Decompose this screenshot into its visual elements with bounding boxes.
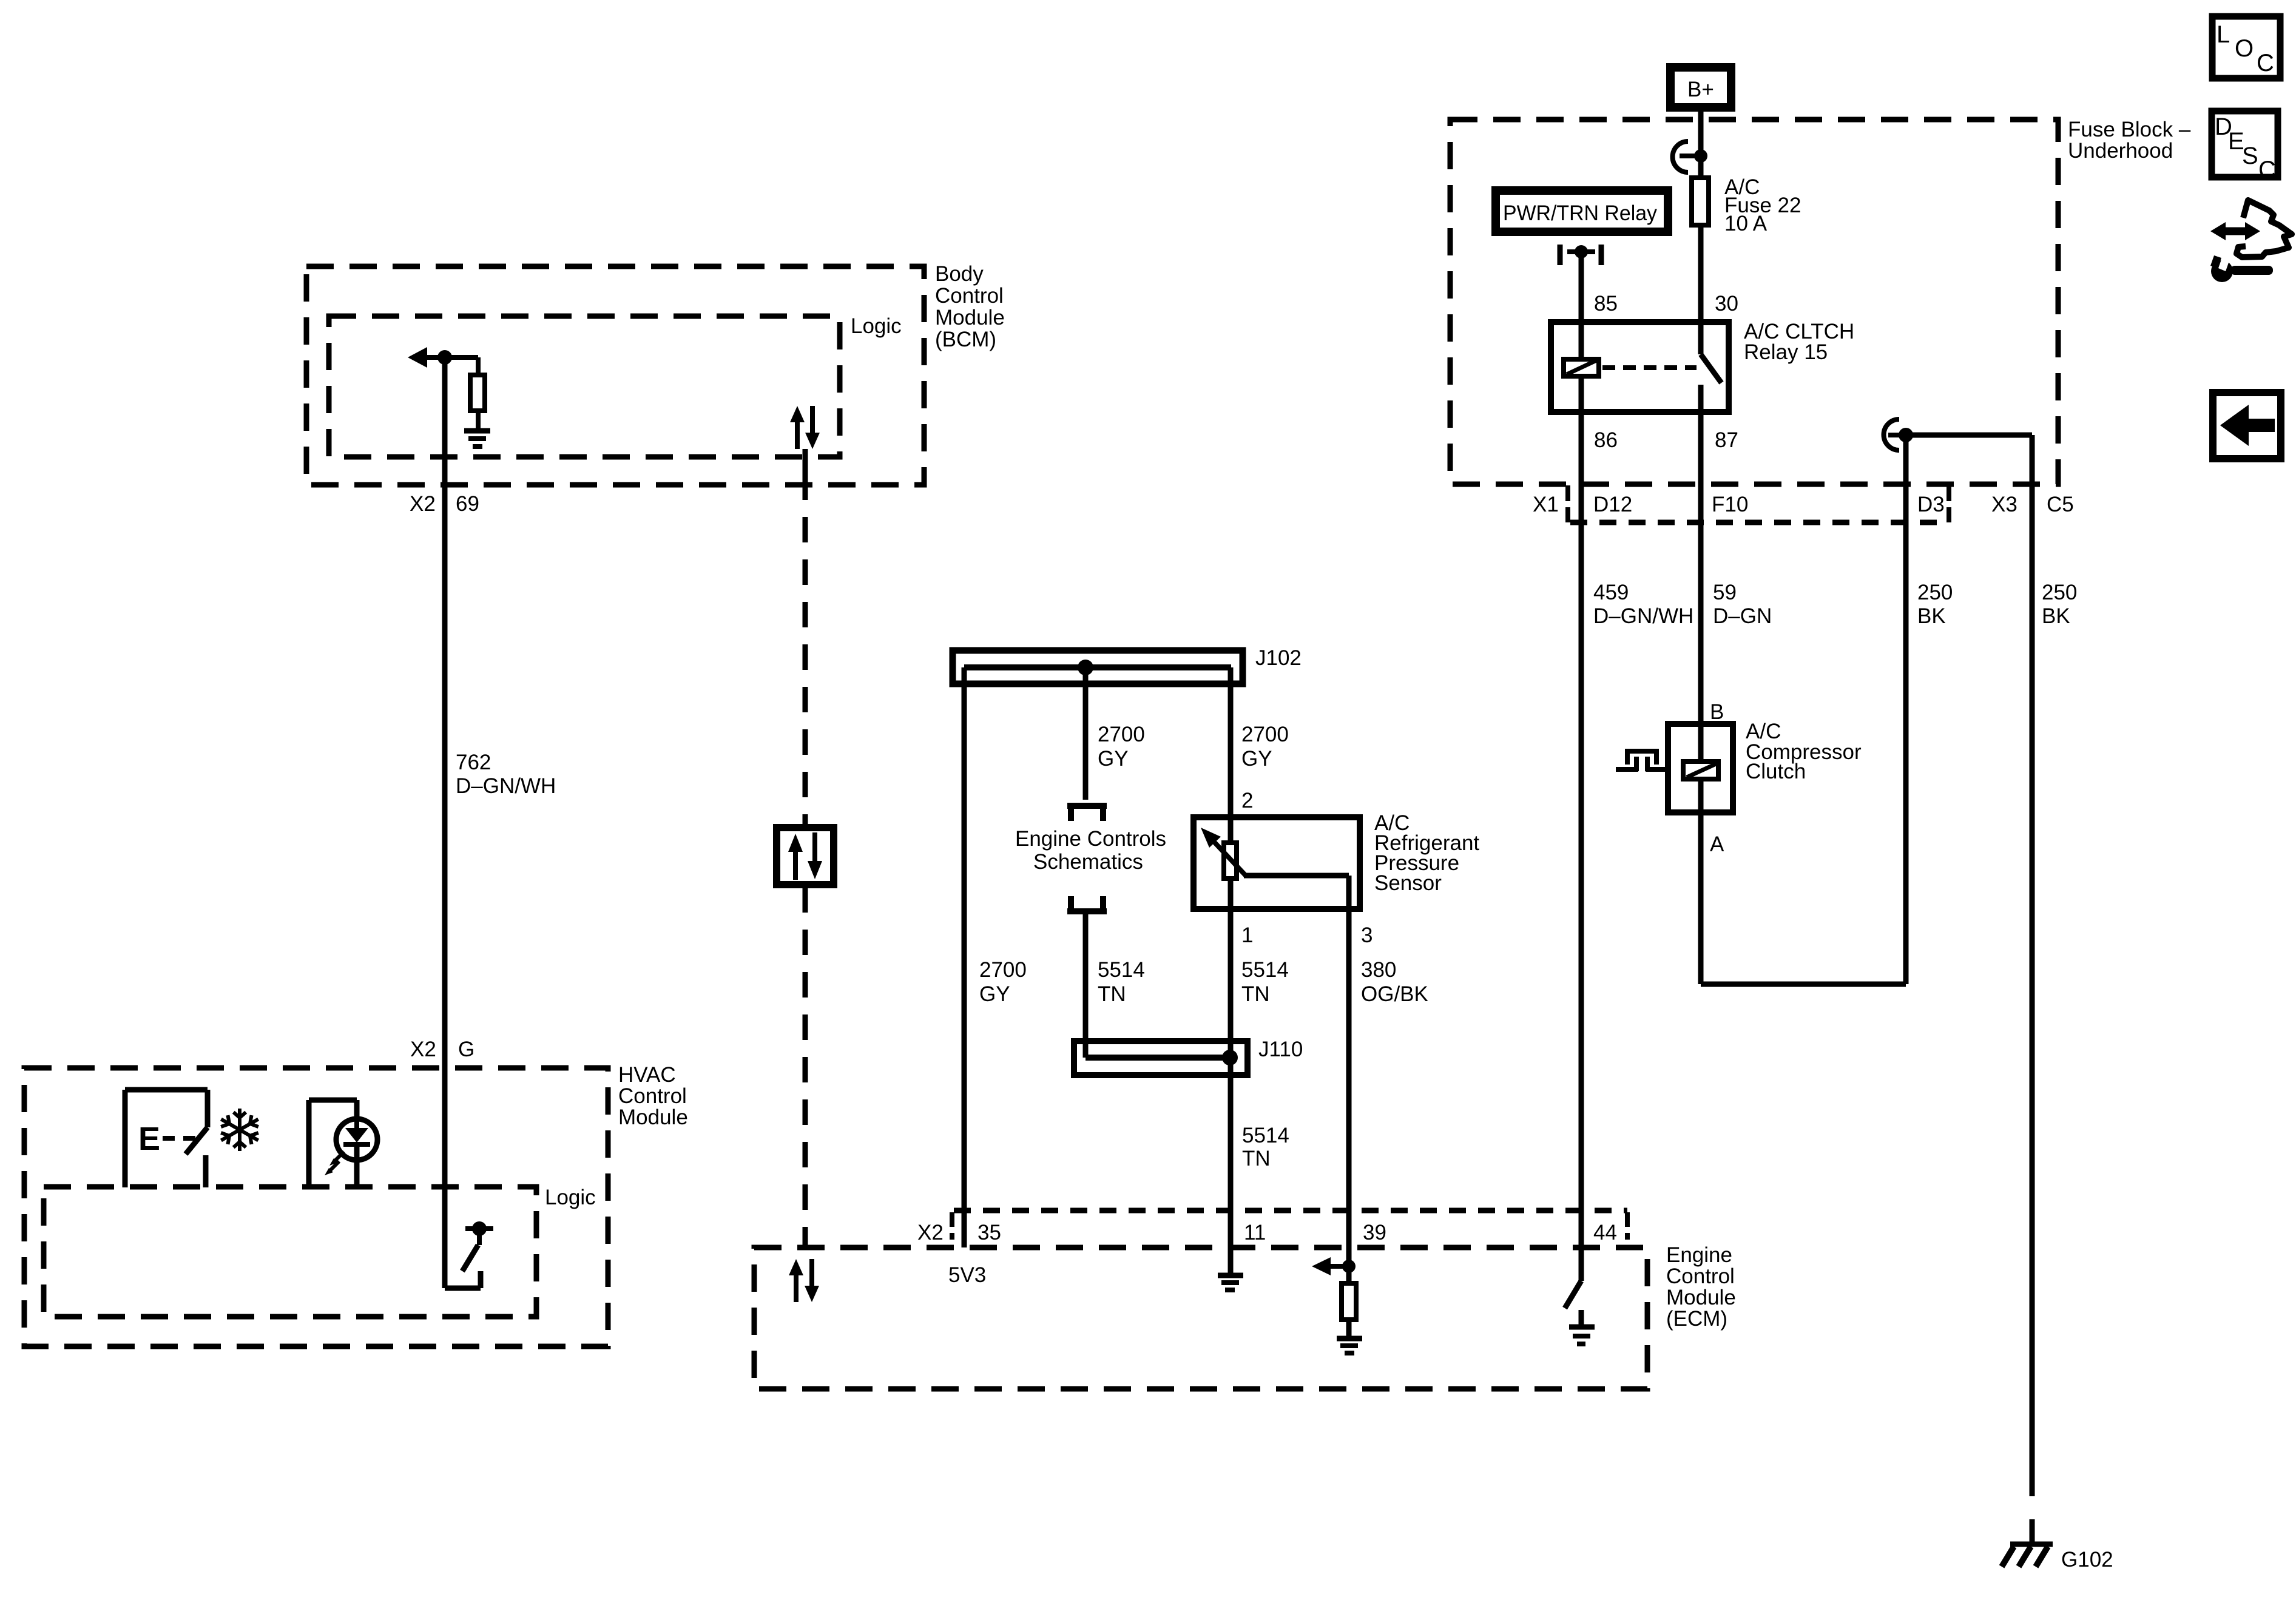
svg-text:F10: F10 — [1712, 493, 1748, 516]
svg-text:250: 250 — [2042, 581, 2077, 604]
svg-text:BK: BK — [1917, 604, 1946, 628]
wire sensor 1 down through J110 to ECM 11 — [1228, 879, 1234, 1247]
svg-text:35: 35 — [977, 1221, 1001, 1244]
engine control module dashed box — [754, 1247, 1647, 1389]
wire label 380 OG/BK — [1361, 958, 1428, 1006]
svg-text:GY: GY — [1241, 747, 1272, 771]
label Engine Control Module (ECM) — [1666, 1243, 1736, 1331]
svg-text:69: 69 — [456, 492, 479, 516]
ground ECM pin 44 — [1569, 1327, 1595, 1344]
svg-text:A: A — [1710, 832, 1724, 856]
svg-text:2: 2 — [1241, 789, 1253, 812]
A/C request switch with E actuator — [125, 1090, 208, 1187]
sensor potentiometer — [1201, 828, 1246, 879]
svg-text:(BCM): (BCM) — [935, 328, 996, 351]
wire label 762 D-GN/WH — [456, 751, 556, 798]
wire clutch A to D3 drop — [1701, 982, 1906, 987]
svg-text:B: B — [1710, 700, 1724, 724]
svg-text:O: O — [2235, 35, 2254, 62]
svg-text:59: 59 — [1713, 581, 1737, 604]
wire label 5514 TN below J110 — [1242, 1124, 1289, 1170]
svg-text:S: S — [2242, 143, 2258, 169]
connector row separator X1 — [1565, 485, 1570, 522]
ground ECM pin 11 — [1218, 1247, 1243, 1290]
node BCM output junction — [437, 350, 452, 365]
svg-text:2700: 2700 — [1241, 723, 1289, 746]
serial data arrows in ECM — [789, 1259, 819, 1302]
svg-text:B+: B+ — [1687, 78, 1714, 101]
svg-text:86: 86 — [1594, 428, 1618, 452]
svg-text:BK: BK — [2042, 604, 2070, 628]
clutch thermal limiter zigzag — [1616, 749, 1668, 771]
label Body Control Module (BCM) — [935, 262, 1005, 351]
svg-text:Logic: Logic — [545, 1186, 596, 1209]
diagnostic wrench icon — [2210, 200, 2292, 282]
svg-text:459: 459 — [1593, 581, 1629, 604]
DESC legend box — [2212, 111, 2278, 183]
ECM connector row dotted line — [954, 1208, 1627, 1214]
sensor wiper to pin 3 — [1244, 876, 1349, 909]
wire relay coil 85 feed — [1579, 252, 1584, 359]
svg-text:TN: TN — [1098, 982, 1126, 1006]
fuse F22 A/C 10A — [1692, 175, 1801, 235]
svg-text:Schematics: Schematics — [1033, 850, 1143, 874]
svg-text:Clutch: Clutch — [1746, 760, 1806, 783]
off-page bracket upper (to Engine Controls Schematics) — [1067, 806, 1107, 821]
serial data wire dashed upper — [803, 474, 808, 825]
HVAC control module dashed box — [24, 1068, 608, 1346]
ground BCM internal — [464, 431, 490, 447]
svg-text:X3: X3 — [1991, 493, 2017, 516]
A/C Compressor Clutch box — [1668, 720, 1862, 812]
off-page bracket lower — [1067, 896, 1107, 911]
svg-text:250: 250 — [1917, 581, 1953, 604]
PWR/TRN Relay box — [1496, 191, 1668, 232]
label HVAC Control Module — [618, 1063, 688, 1129]
svg-text:10 A: 10 A — [1724, 212, 1768, 235]
wire label 2700 GY right — [1241, 723, 1289, 771]
fuse block underhood dashed box — [1450, 120, 2058, 484]
svg-text:L: L — [2217, 21, 2230, 48]
connector hook at B+ feed — [1673, 141, 1707, 172]
A/C refrigerant pressure sensor box — [1194, 811, 1479, 909]
ground ECM pin 39 — [1337, 1320, 1362, 1353]
ECM pin 39 reference arrow — [1312, 1257, 1356, 1275]
svg-text:D–GN/WH: D–GN/WH — [1593, 604, 1693, 628]
ground G102 — [2002, 1544, 2053, 1567]
body control module dashed box — [306, 266, 924, 485]
B+ battery feed box — [1670, 67, 1731, 107]
wire dashed to G102 — [2030, 1468, 2035, 1544]
svg-text:Sensor: Sensor — [1374, 871, 1442, 895]
svg-text:E: E — [138, 1121, 160, 1157]
wire 380 OG/BK sensor 3 to ECM 39 — [1346, 909, 1352, 1266]
wire 250 BK D3 drop — [1903, 435, 1909, 984]
clutch coil — [1683, 761, 1718, 779]
LOC legend box — [2212, 16, 2280, 78]
svg-text:Engine: Engine — [1666, 1243, 1732, 1267]
svg-text:J110: J110 — [1258, 1038, 1303, 1061]
connector row labels — [1533, 493, 2074, 516]
wire hook to X3 drop — [1906, 433, 2032, 438]
svg-text:5514: 5514 — [1241, 958, 1289, 982]
svg-text:30: 30 — [1715, 292, 1738, 316]
resistor ECM pull-down — [1342, 1266, 1356, 1320]
A/C CLTCH Relay 15 box — [1551, 320, 1854, 412]
connector label X2 69 at BCM — [410, 492, 479, 516]
svg-text:1: 1 — [1241, 923, 1253, 947]
svg-text:HVAC: HVAC — [618, 1063, 676, 1087]
wire fuse to relay 30 — [1698, 225, 1704, 354]
svg-text:Module: Module — [618, 1106, 688, 1129]
svg-text:X1: X1 — [1533, 493, 1559, 516]
svg-text:2700: 2700 — [979, 958, 1027, 982]
svg-text:Engine Controls: Engine Controls — [1015, 827, 1166, 851]
splice pack J110 — [1074, 1038, 1303, 1075]
serial data symbol box — [777, 828, 834, 885]
svg-text:85: 85 — [1594, 292, 1618, 316]
connector bracket below PWR/TRN relay — [1560, 245, 1601, 265]
ECM row separator 44 — [1625, 1212, 1630, 1240]
relay switch blade — [1701, 354, 1721, 383]
svg-text:D12: D12 — [1593, 493, 1632, 516]
svg-text:Module: Module — [1666, 1286, 1736, 1309]
serial data arrows in BCM logic — [790, 406, 820, 449]
svg-text:TN: TN — [1242, 1147, 1271, 1170]
svg-text:D–GN: D–GN — [1713, 604, 1772, 628]
connector label X2 G at HVAC — [410, 1038, 474, 1061]
wire label 5514 TN left — [1098, 958, 1145, 1006]
svg-text:D3: D3 — [1917, 493, 1945, 516]
svg-text:5V3: 5V3 — [948, 1263, 986, 1287]
svg-text:Module: Module — [935, 306, 1005, 329]
svg-text:Relay 15: Relay 15 — [1744, 340, 1828, 364]
svg-text:G: G — [458, 1038, 474, 1061]
wire 2700 GY middle J102 to bracket — [1083, 667, 1089, 800]
svg-text:Logic: Logic — [851, 314, 902, 338]
wire label 5514 TN sensor side — [1241, 958, 1289, 1006]
svg-text:X2: X2 — [410, 1038, 436, 1061]
ECM pin 44 switch contact — [1579, 1310, 1584, 1325]
connector row separator D3/X3 — [1947, 485, 1951, 522]
svg-text:Body: Body — [935, 262, 984, 286]
ECM connector row labels — [917, 1221, 1617, 1244]
wire label 459 D-GN/WH — [1593, 581, 1693, 628]
svg-text:Underhood: Underhood — [2068, 139, 2173, 163]
svg-text:PWR/TRN Relay: PWR/TRN Relay — [1503, 201, 1657, 225]
serial data wire BCM to ECM solid stub — [803, 449, 808, 474]
svg-text:C5: C5 — [2047, 493, 2074, 516]
svg-text:3: 3 — [1361, 923, 1373, 947]
wire 5514 TN bracket to J110 — [1083, 911, 1089, 1058]
wire label 2700 GY bottom-left — [979, 958, 1027, 1006]
splice pack J102 — [953, 646, 1302, 684]
wire 762 D-GN/WH BCM to HVAC — [442, 357, 448, 1288]
HVAC logic switch — [445, 1221, 493, 1288]
svg-text:GY: GY — [1098, 747, 1129, 771]
svg-text:2700: 2700 — [1098, 723, 1145, 746]
svg-text:762: 762 — [456, 751, 491, 774]
svg-text:TN: TN — [1241, 982, 1270, 1006]
wire clutch A down — [1698, 781, 1704, 984]
label Fuse Block - Underhood — [2068, 118, 2191, 163]
svg-text:OG/BK: OG/BK — [1361, 982, 1428, 1006]
A/C indicator LED — [309, 1100, 377, 1187]
svg-text:39: 39 — [1363, 1221, 1386, 1244]
resistor BCM pull-up — [470, 375, 485, 411]
svg-text:D–GN/WH: D–GN/WH — [456, 774, 556, 798]
svg-text:Control: Control — [618, 1084, 687, 1108]
ECM row separator X2 — [950, 1212, 954, 1240]
wire 459 D-GN/WH relay 86 to ECM 44 — [1579, 376, 1584, 1281]
BCM logic dashed box — [329, 316, 840, 457]
label Engine Controls Schematics — [1015, 827, 1166, 874]
svg-text:87: 87 — [1715, 428, 1738, 452]
svg-text:5514: 5514 — [1098, 958, 1145, 982]
snowflake A/C icon — [223, 1110, 257, 1149]
svg-text:Control: Control — [1666, 1264, 1735, 1288]
fuse block connector row dotted line — [1570, 520, 1947, 525]
wire label 59 D-GN — [1713, 581, 1772, 628]
wire to pull-up resistor — [476, 357, 481, 375]
svg-text:Control: Control — [935, 284, 1004, 308]
svg-text:11: 11 — [1244, 1221, 1266, 1244]
wire label 2700 GY middle — [1098, 723, 1145, 771]
back arrow legend box — [2213, 393, 2281, 459]
wire label 250 BK (C5) — [2042, 581, 2077, 628]
serial data wire dashed lower — [803, 887, 808, 1247]
svg-text:C: C — [2257, 50, 2274, 76]
svg-text:X2: X2 — [410, 492, 436, 516]
wire 2700 GY right J102 to sensor 2 — [1228, 667, 1234, 843]
HVAC logic dashed box — [44, 1187, 536, 1317]
wire resistor to ground — [476, 411, 481, 428]
svg-text:C: C — [2258, 157, 2276, 183]
svg-text:Fuse Block –: Fuse Block – — [2068, 118, 2191, 141]
wire 59 D-GN relay 87 to clutch B — [1698, 385, 1704, 761]
svg-text:X2: X2 — [917, 1221, 944, 1244]
connector hook near D3 — [1884, 419, 1914, 450]
svg-text:44: 44 — [1593, 1221, 1617, 1244]
svg-text:(ECM): (ECM) — [1666, 1307, 1727, 1331]
relay linkage dashed — [1602, 365, 1697, 370]
svg-text:G102: G102 — [2061, 1548, 2113, 1571]
wire 2700 GY left J102 to ECM 35 — [962, 667, 967, 1247]
svg-text:J102: J102 — [1255, 646, 1302, 670]
wire 250 BK X3/C5 to G102 solid — [2030, 435, 2035, 1468]
ECM pin 44 switch blade — [1565, 1281, 1581, 1308]
svg-text:380: 380 — [1361, 958, 1396, 982]
BCM output arrow — [408, 347, 478, 368]
relay coil — [1564, 359, 1599, 376]
wire label 250 BK (D3) — [1917, 581, 1953, 628]
svg-text:5514: 5514 — [1242, 1124, 1289, 1147]
svg-text:GY: GY — [979, 982, 1010, 1006]
wire B+ to fuse — [1698, 112, 1704, 178]
relay switch fixed contact — [1698, 385, 1704, 415]
